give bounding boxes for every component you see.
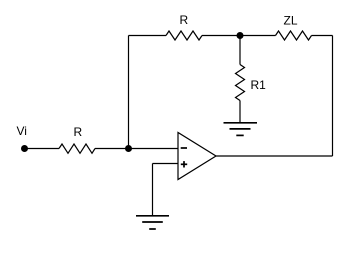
op-amp U1 <box>178 133 216 180</box>
wire node A to R1 <box>239 36 241 65</box>
wire feedback top left horizontal <box>129 35 167 37</box>
wire R1 to ground <box>239 101 241 124</box>
svg-text:Vi: Vi <box>17 124 27 138</box>
resistor R (feedback) <box>166 31 202 40</box>
wire op-amp output <box>216 155 333 157</box>
op-amp non-inverting pin mark (+) <box>181 161 187 167</box>
svg-text:R1: R1 <box>251 78 267 92</box>
ground (non-inverting input) <box>136 216 169 229</box>
wire ZL to right corner <box>312 35 333 37</box>
wire Vi to R <box>25 148 60 150</box>
wire right vertical (ZL to output) <box>332 36 334 157</box>
op-amp inverting pin mark (-) <box>181 147 187 149</box>
node A junction (R / ZL / R1) <box>237 32 244 39</box>
resistor R1 <box>236 65 245 101</box>
resistor ZL <box>276 31 312 40</box>
svg-text:R: R <box>180 13 189 27</box>
wire non-inverting input down to ground <box>152 164 154 216</box>
resistor R (input) <box>59 144 95 153</box>
svg-text:ZL: ZL <box>284 14 298 28</box>
node junction at inverting input <box>125 145 132 152</box>
ground (below R1) <box>224 123 258 136</box>
wire R to op-amp inverting input <box>95 148 178 150</box>
node Vi input terminal <box>21 145 28 152</box>
wire op-amp non-inverting input <box>153 163 179 165</box>
svg-text:R: R <box>74 125 83 139</box>
wire R to node A <box>202 35 276 37</box>
wire feedback riser (left vertical) <box>128 36 130 149</box>
